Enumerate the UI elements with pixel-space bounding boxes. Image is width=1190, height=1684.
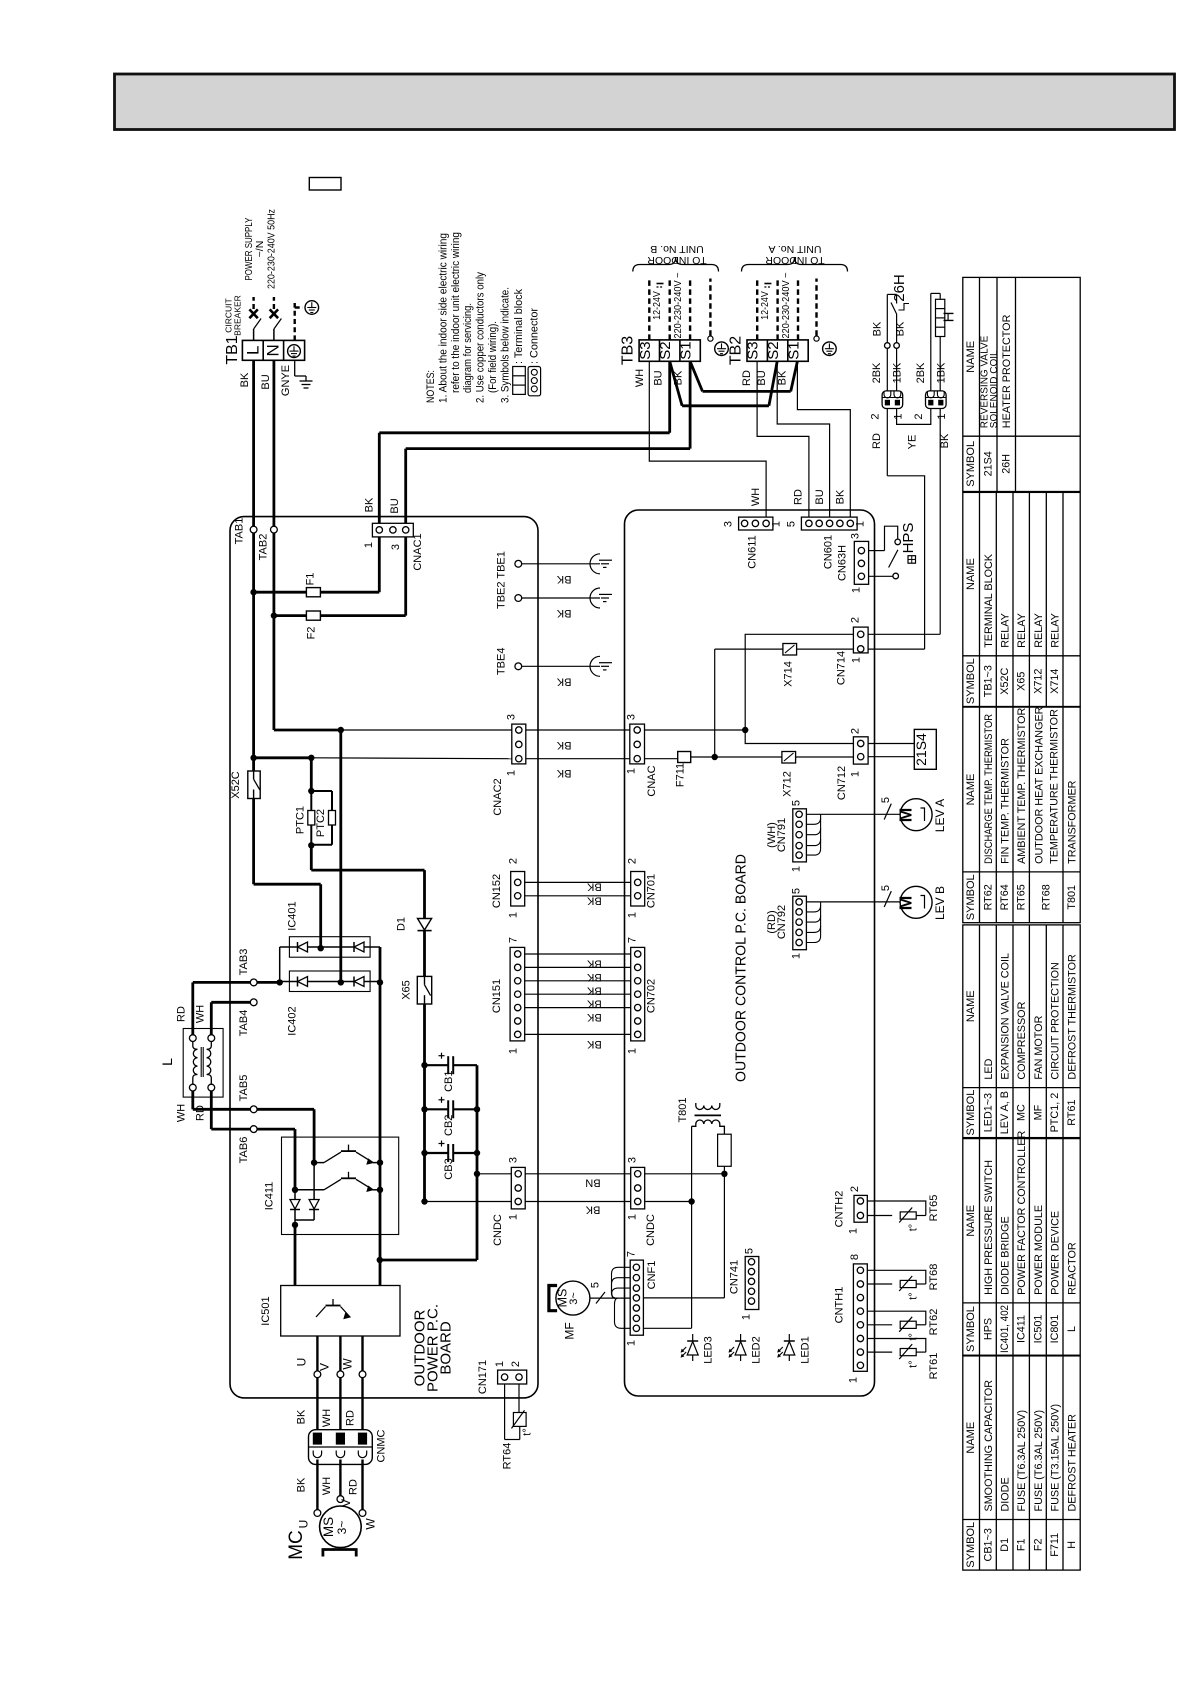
svg-text:H: H [1066, 1541, 1078, 1549]
svg-text:D1: D1 [999, 1538, 1011, 1552]
svg-text:3: 3 [627, 1157, 639, 1163]
svg-text:BK: BK [586, 895, 601, 907]
svg-text:BK: BK [586, 881, 601, 893]
svg-text:5: 5 [791, 888, 803, 894]
svg-text:WH: WH [176, 1104, 188, 1122]
svg-text:RT65: RT65 [1016, 884, 1028, 910]
svg-text:V: V [318, 1363, 332, 1371]
svg-text:CNDC: CNDC [492, 1214, 504, 1246]
svg-text:M: M [896, 808, 916, 823]
svg-text:DIODE: DIODE [1000, 1477, 1012, 1511]
svg-text:HEATER PROTECTOR: HEATER PROTECTOR [1001, 314, 1013, 428]
svg-text:X52C: X52C [230, 771, 242, 799]
svg-text:CNAC2: CNAC2 [492, 778, 504, 815]
svg-text:2: 2 [850, 617, 862, 623]
svg-text:SYMBOL: SYMBOL [965, 874, 977, 920]
svg-text:1: 1 [855, 521, 867, 527]
svg-text:2: 2 [850, 728, 862, 734]
svg-text:X712: X712 [781, 771, 793, 797]
svg-text:TAB6: TAB6 [238, 1137, 250, 1164]
svg-text:IC801: IC801 [1049, 1315, 1061, 1344]
svg-text:LED3: LED3 [703, 1336, 715, 1364]
svg-text:IC501: IC501 [1032, 1315, 1044, 1344]
svg-text:refer to the indoor unit elect: refer to the indoor unit electric wiring [450, 232, 462, 393]
svg-text:W: W [364, 1518, 378, 1530]
svg-text:(WH): (WH) [766, 822, 778, 848]
svg-text:BK: BK [872, 321, 884, 336]
svg-text:TB2: TB2 [728, 336, 745, 365]
svg-text:RD: RD [176, 1006, 188, 1022]
svg-text:S1: S1 [678, 341, 695, 359]
svg-text:L: L [159, 1058, 175, 1066]
svg-text:WH: WH [195, 1005, 207, 1023]
svg-text:26H: 26H [891, 274, 908, 302]
svg-text:5: 5 [791, 800, 803, 806]
svg-text:S2: S2 [765, 341, 782, 359]
svg-text:5: 5 [744, 1248, 756, 1254]
svg-text:RT68: RT68 [928, 1264, 940, 1291]
svg-text:: Connector: : Connector [529, 308, 541, 364]
svg-text:EXPANSION VALVE COIL: EXPANSION VALVE COIL [1000, 953, 1012, 1080]
svg-text:CN712: CN712 [836, 766, 848, 800]
svg-text:TBE4: TBE4 [496, 648, 508, 676]
svg-text:F711: F711 [674, 763, 686, 787]
svg-text:1: 1 [850, 657, 862, 663]
svg-text:W: W [341, 1358, 355, 1370]
svg-text:1: 1 [791, 953, 803, 959]
svg-text:RT62: RT62 [982, 884, 994, 910]
svg-text:BK: BK [586, 1011, 601, 1023]
svg-text:RT64: RT64 [502, 1443, 514, 1470]
svg-text:1: 1 [625, 768, 637, 774]
svg-text:7: 7 [626, 1251, 638, 1257]
svg-text:CN63H: CN63H [837, 545, 849, 581]
svg-text:BK: BK [586, 1038, 601, 1050]
svg-text:X65: X65 [400, 980, 412, 1000]
svg-text:BU: BU [260, 374, 272, 389]
svg-text:S1: S1 [786, 341, 803, 359]
svg-text:3: 3 [625, 714, 637, 720]
svg-text:3: 3 [506, 714, 518, 720]
svg-text:NAME: NAME [965, 1205, 977, 1237]
svg-text:CNAC: CNAC [646, 765, 658, 796]
svg-text:BU: BU [756, 370, 768, 385]
svg-text:t°: t° [908, 1224, 920, 1231]
svg-text:N: N [264, 344, 283, 356]
svg-text:TAB3: TAB3 [238, 949, 250, 976]
svg-text:IC401, 402: IC401, 402 [999, 1305, 1011, 1353]
svg-text:BK: BK [939, 433, 951, 448]
svg-text:T801: T801 [1066, 885, 1078, 910]
svg-text:CNTH2: CNTH2 [834, 1191, 846, 1228]
svg-text:D1: D1 [396, 917, 408, 931]
svg-text:LEV B: LEV B [933, 886, 947, 920]
svg-text:PTC1: PTC1 [295, 806, 307, 834]
svg-text:: Terminal block: : Terminal block [513, 288, 525, 364]
svg-text:BK: BK [776, 370, 788, 385]
svg-text:220-230-240V ~: 220-230-240V ~ [672, 273, 684, 339]
svg-text:1: 1 [627, 1214, 639, 1220]
svg-text:IC501: IC501 [260, 1296, 272, 1325]
svg-text:SYMBOL: SYMBOL [965, 1306, 977, 1352]
svg-text:X714: X714 [782, 661, 794, 687]
svg-text:IC401: IC401 [287, 901, 299, 930]
svg-text:RD: RD [195, 1105, 207, 1121]
svg-text:BK: BK [239, 372, 251, 387]
svg-text:2: 2 [510, 1361, 522, 1367]
svg-text:FUSE (T6.3AL 250V): FUSE (T6.3AL 250V) [1016, 1410, 1028, 1512]
svg-text:BU: BU [653, 370, 665, 385]
svg-text:FIN TEMP. THERMISTOR: FIN TEMP. THERMISTOR [1000, 738, 1012, 864]
svg-text:T801: T801 [677, 1097, 689, 1122]
svg-text:UNIT No. A: UNIT No. A [769, 243, 822, 255]
svg-text:1: 1 [627, 1048, 639, 1054]
svg-text:TERMINAL BLOCK: TERMINAL BLOCK [983, 553, 995, 648]
svg-text:TRANSFORMER: TRANSFORMER [1067, 780, 1079, 864]
svg-text:TAB4: TAB4 [238, 1010, 250, 1037]
svg-text:TB1~3: TB1~3 [982, 665, 994, 697]
svg-text:COMPRESSOR: COMPRESSOR [1016, 1001, 1028, 1079]
svg-text:5: 5 [880, 885, 892, 891]
svg-text:NAME: NAME [965, 990, 977, 1022]
svg-text:1: 1 [626, 1340, 638, 1346]
svg-text:NAME: NAME [965, 558, 977, 590]
svg-text:X52C: X52C [999, 667, 1011, 694]
svg-text:RD: RD [345, 1410, 357, 1426]
svg-text:LED1: LED1 [799, 1336, 811, 1364]
svg-text:CN171: CN171 [477, 1360, 489, 1394]
svg-text:CB1: CB1 [443, 1070, 455, 1091]
svg-text:NOTES:: NOTES: [425, 370, 437, 403]
svg-text:RD: RD [793, 489, 805, 505]
svg-text:RT61: RT61 [928, 1353, 940, 1380]
svg-text:RT64: RT64 [999, 884, 1011, 910]
svg-text:BK: BK [556, 675, 571, 687]
svg-text:~/N: ~/N [254, 241, 266, 258]
svg-text:1: 1 [741, 1314, 753, 1320]
svg-text:TAB5: TAB5 [238, 1075, 250, 1102]
svg-text:5: 5 [785, 521, 797, 527]
svg-text:BK: BK [556, 767, 571, 779]
svg-text:3: 3 [722, 521, 734, 527]
svg-text:220-230-240V 50Hz: 220-230-240V 50Hz [266, 209, 278, 289]
svg-text:2: 2 [913, 413, 925, 419]
svg-text:CN152: CN152 [491, 874, 503, 908]
svg-text:X712: X712 [1032, 669, 1044, 694]
svg-text:21S4: 21S4 [913, 733, 929, 766]
svg-text:LEV A: LEV A [933, 799, 947, 832]
svg-text:CB3: CB3 [443, 1158, 455, 1179]
svg-text:RELAY: RELAY [1033, 613, 1045, 648]
svg-text:PTC1, 2: PTC1, 2 [1049, 1093, 1061, 1133]
svg-text:DEFROST HEATER: DEFROST HEATER [1067, 1414, 1079, 1512]
svg-text:1: 1 [850, 587, 862, 593]
svg-text:SYMBOL: SYMBOL [965, 658, 977, 704]
svg-text:CNAC1: CNAC1 [412, 533, 424, 570]
svg-text:(For field wiring).: (For field wiring). [487, 321, 499, 393]
svg-text:F1: F1 [304, 573, 316, 586]
svg-text:FUSE (T3.15AL 250V): FUSE (T3.15AL 250V) [1050, 1404, 1062, 1512]
svg-text:V: V [339, 1499, 353, 1507]
svg-text:1: 1 [771, 521, 783, 527]
svg-text:BK: BK [556, 573, 571, 585]
svg-text:FAN MOTOR: FAN MOTOR [1033, 1015, 1045, 1079]
svg-text:PTC2: PTC2 [315, 809, 327, 837]
svg-text:S2: S2 [657, 341, 674, 359]
svg-text:3: 3 [390, 544, 402, 550]
svg-text:BN: BN [585, 1177, 600, 1189]
svg-text:DEFROST THERMISTOR: DEFROST THERMISTOR [1067, 954, 1079, 1080]
svg-text:BK: BK [585, 1204, 600, 1216]
svg-text:MC: MC [286, 1530, 307, 1560]
svg-text:CB2: CB2 [443, 1115, 455, 1136]
svg-text:2: 2 [507, 858, 519, 864]
svg-text:1: 1 [936, 413, 948, 419]
svg-text:3~: 3~ [335, 1521, 349, 1535]
svg-text:X65: X65 [1016, 672, 1028, 691]
svg-text:RT61: RT61 [1066, 1099, 1078, 1125]
svg-text:1: 1 [507, 912, 519, 918]
svg-text:1: 1 [507, 1048, 519, 1054]
svg-text:LED: LED [983, 1058, 995, 1079]
svg-text:S3: S3 [745, 341, 762, 359]
svg-text:1: 1 [363, 542, 375, 548]
svg-text:CIRCUIT PROTECTION: CIRCUIT PROTECTION [1050, 962, 1062, 1079]
svg-text:MS: MS [321, 1517, 336, 1537]
svg-text:F711: F711 [1049, 1533, 1061, 1557]
svg-text:CNTH1: CNTH1 [834, 1287, 846, 1324]
svg-text:1: 1 [848, 1228, 860, 1234]
svg-text:YE: YE [906, 435, 918, 450]
svg-text:t°: t° [908, 1360, 920, 1367]
svg-text:BU: BU [814, 489, 826, 504]
svg-text:MC: MC [1016, 1104, 1028, 1121]
svg-text:SYMBOL: SYMBOL [965, 1090, 977, 1136]
svg-text:H: H [941, 312, 958, 323]
svg-text:NAME: NAME [965, 1422, 977, 1454]
svg-text:CN791: CN791 [776, 818, 788, 852]
svg-text:CNF1: CNF1 [646, 1261, 658, 1290]
svg-text:S3: S3 [637, 341, 654, 359]
svg-text:12-24V: 12-24V [651, 291, 663, 320]
svg-text:3: 3 [507, 1157, 519, 1163]
svg-text:IC411: IC411 [1016, 1315, 1028, 1343]
svg-text:CN792: CN792 [776, 905, 788, 939]
svg-text:t°: t° [908, 1292, 920, 1299]
svg-text:21S4: 21S4 [983, 451, 995, 476]
svg-text:HPS: HPS [982, 1318, 994, 1340]
svg-text:8: 8 [849, 1254, 861, 1260]
svg-text:2BK: 2BK [871, 362, 883, 383]
svg-text:RT68: RT68 [1041, 884, 1053, 910]
svg-text:WH: WH [750, 488, 762, 506]
svg-text:TAB2: TAB2 [258, 534, 270, 561]
svg-text:BK: BK [835, 489, 847, 504]
svg-text:12-24V: 12-24V [759, 291, 771, 320]
svg-text:1: 1 [506, 770, 518, 776]
svg-text:BOARD: BOARD [438, 1321, 455, 1375]
svg-text:OUTDOOR HEAT EXCHANGER: OUTDOOR HEAT EXCHANGER [1034, 706, 1046, 864]
svg-text:2: 2 [627, 858, 639, 864]
svg-text:RELAY: RELAY [1016, 613, 1028, 648]
svg-text:M: M [896, 896, 916, 911]
svg-text:CN714: CN714 [835, 651, 847, 685]
svg-text:5: 5 [590, 1282, 602, 1288]
svg-text:CN611: CN611 [747, 535, 759, 568]
svg-text:NAME: NAME [965, 774, 977, 806]
svg-text:RELAY: RELAY [1050, 613, 1062, 648]
svg-text:POWER DEVICE: POWER DEVICE [1050, 1211, 1062, 1295]
svg-text:L: L [244, 346, 263, 355]
svg-text:L: L [1066, 1326, 1078, 1332]
svg-text:MF: MF [563, 1322, 577, 1339]
svg-text:CNMC: CNMC [376, 1429, 388, 1462]
svg-text:220-230-240V ~: 220-230-240V ~ [780, 273, 792, 339]
svg-text:2: 2 [849, 1186, 861, 1192]
svg-text:3: 3 [850, 533, 862, 539]
svg-text:WH: WH [634, 369, 646, 387]
svg-text:WH: WH [321, 1409, 333, 1427]
svg-text:NAME: NAME [965, 341, 977, 373]
svg-text:1: 1 [494, 1361, 506, 1367]
svg-text:LED2: LED2 [751, 1336, 763, 1364]
svg-text:X714: X714 [1049, 669, 1061, 694]
svg-text:1: 1 [791, 866, 803, 872]
svg-text:t°: t° [908, 1333, 920, 1340]
svg-text:CN701: CN701 [646, 874, 658, 908]
svg-text:1: 1 [850, 771, 862, 777]
svg-text:IC402: IC402 [287, 1006, 299, 1035]
svg-text:BU: BU [389, 498, 401, 513]
svg-text:RD: RD [741, 370, 753, 386]
svg-text:U: U [297, 1520, 311, 1529]
svg-text:RELAY: RELAY [1000, 613, 1012, 648]
svg-text:2: 2 [870, 413, 882, 419]
svg-text:1: 1 [893, 413, 905, 419]
svg-text:BK: BK [556, 607, 571, 619]
svg-text:AMBIENT TEMP. THERMISTOR: AMBIENT TEMP. THERMISTOR [1016, 708, 1028, 864]
svg-text:3. Symbols below indicate.: 3. Symbols below indicate. [499, 287, 511, 403]
svg-text:CB1~3: CB1~3 [982, 1528, 994, 1561]
svg-text:BK: BK [556, 739, 571, 751]
svg-text:BK: BK [364, 497, 376, 512]
svg-text:7: 7 [507, 937, 519, 943]
svg-text:TAB1: TAB1 [234, 518, 246, 545]
svg-text:LEV A, B: LEV A, B [999, 1091, 1011, 1134]
svg-text:SOLENOID COIL: SOLENOID COIL [989, 350, 1000, 428]
svg-text:1: 1 [627, 912, 639, 918]
svg-text:2. Use copper conductors only: 2. Use copper conductors only [475, 271, 487, 403]
svg-text:FUSE (T6.3AL 250V): FUSE (T6.3AL 250V) [1033, 1410, 1045, 1512]
svg-text:WH: WH [321, 1477, 333, 1495]
svg-text:REACTOR: REACTOR [1067, 1242, 1079, 1295]
svg-text:SYMBOL: SYMBOL [965, 441, 977, 487]
svg-text:CN741: CN741 [729, 1260, 741, 1294]
svg-text:HIGH PRESSURE SWITCH: HIGH PRESSURE SWITCH [983, 1160, 995, 1295]
svg-text:5: 5 [880, 797, 892, 803]
svg-text:U: U [295, 1358, 309, 1367]
svg-text:26H: 26H [1001, 454, 1013, 474]
svg-text:SMOOTHING CAPACITOR: SMOOTHING CAPACITOR [983, 1380, 995, 1512]
svg-text:POWER FACTOR CONTROLLER: POWER FACTOR CONTROLLER [1016, 1131, 1028, 1295]
svg-text:TB3: TB3 [620, 336, 637, 365]
svg-text:1: 1 [507, 1214, 519, 1220]
svg-text:DISCHARGE TEMP. THERMISTOR: DISCHARGE TEMP. THERMISTOR [983, 714, 995, 864]
svg-text:F2: F2 [1032, 1538, 1044, 1551]
svg-text:BREAKER: BREAKER [233, 295, 243, 336]
svg-text:(RD): (RD) [766, 910, 778, 933]
svg-text:1BK: 1BK [892, 362, 904, 383]
svg-text:RT65: RT65 [928, 1195, 940, 1222]
svg-text:DIODE BRIDGE: DIODE BRIDGE [1000, 1216, 1012, 1295]
svg-text:CN601: CN601 [822, 535, 834, 569]
svg-text:F2: F2 [305, 627, 317, 640]
svg-text:CNDC: CNDC [645, 1214, 657, 1246]
svg-text:POWER MODULE: POWER MODULE [1033, 1205, 1045, 1295]
svg-text:TEMPERATURE THERMISTOR: TEMPERATURE THERMISTOR [1049, 709, 1061, 864]
svg-text:POWER SUPPLY: POWER SUPPLY [243, 218, 255, 281]
svg-text:1: 1 [848, 1377, 860, 1383]
svg-text:OUTDOOR CONTROL P.C. BOARD: OUTDOOR CONTROL P.C. BOARD [733, 854, 750, 1082]
svg-text:2BK: 2BK [915, 362, 927, 383]
svg-text:UNIT No. B: UNIT No. B [650, 243, 703, 255]
svg-text:TBE2 TBE1: TBE2 TBE1 [496, 551, 508, 609]
svg-text:BK: BK [296, 1477, 308, 1492]
svg-text:IC411: IC411 [264, 1182, 276, 1211]
svg-text:diagram for servicing.: diagram for servicing. [462, 303, 474, 393]
svg-text:BK: BK [895, 321, 907, 336]
svg-text:GNYE: GNYE [280, 365, 292, 396]
svg-text:BK: BK [296, 1409, 308, 1424]
svg-text:RT62: RT62 [928, 1309, 940, 1336]
svg-text:RD: RD [348, 1479, 360, 1495]
svg-text:CN151: CN151 [491, 979, 503, 1013]
svg-text:CN702: CN702 [646, 979, 658, 1013]
svg-text:HPS: HPS [900, 523, 917, 554]
svg-text:SYMBOL: SYMBOL [965, 1522, 977, 1568]
svg-text:1BK: 1BK [936, 362, 948, 383]
svg-text:7: 7 [627, 937, 639, 943]
svg-text:t°: t° [522, 1428, 534, 1435]
svg-text:1. About the indoor side elect: 1. About the indoor side electric wiring [437, 233, 449, 403]
svg-text:TB1: TB1 [224, 335, 241, 364]
svg-text:LED1~3: LED1~3 [982, 1093, 994, 1132]
svg-text:RD: RD [871, 433, 883, 449]
svg-text:F1: F1 [1016, 1538, 1028, 1551]
svg-text:3~: 3~ [568, 1292, 580, 1305]
svg-text:MF: MF [1032, 1104, 1044, 1120]
